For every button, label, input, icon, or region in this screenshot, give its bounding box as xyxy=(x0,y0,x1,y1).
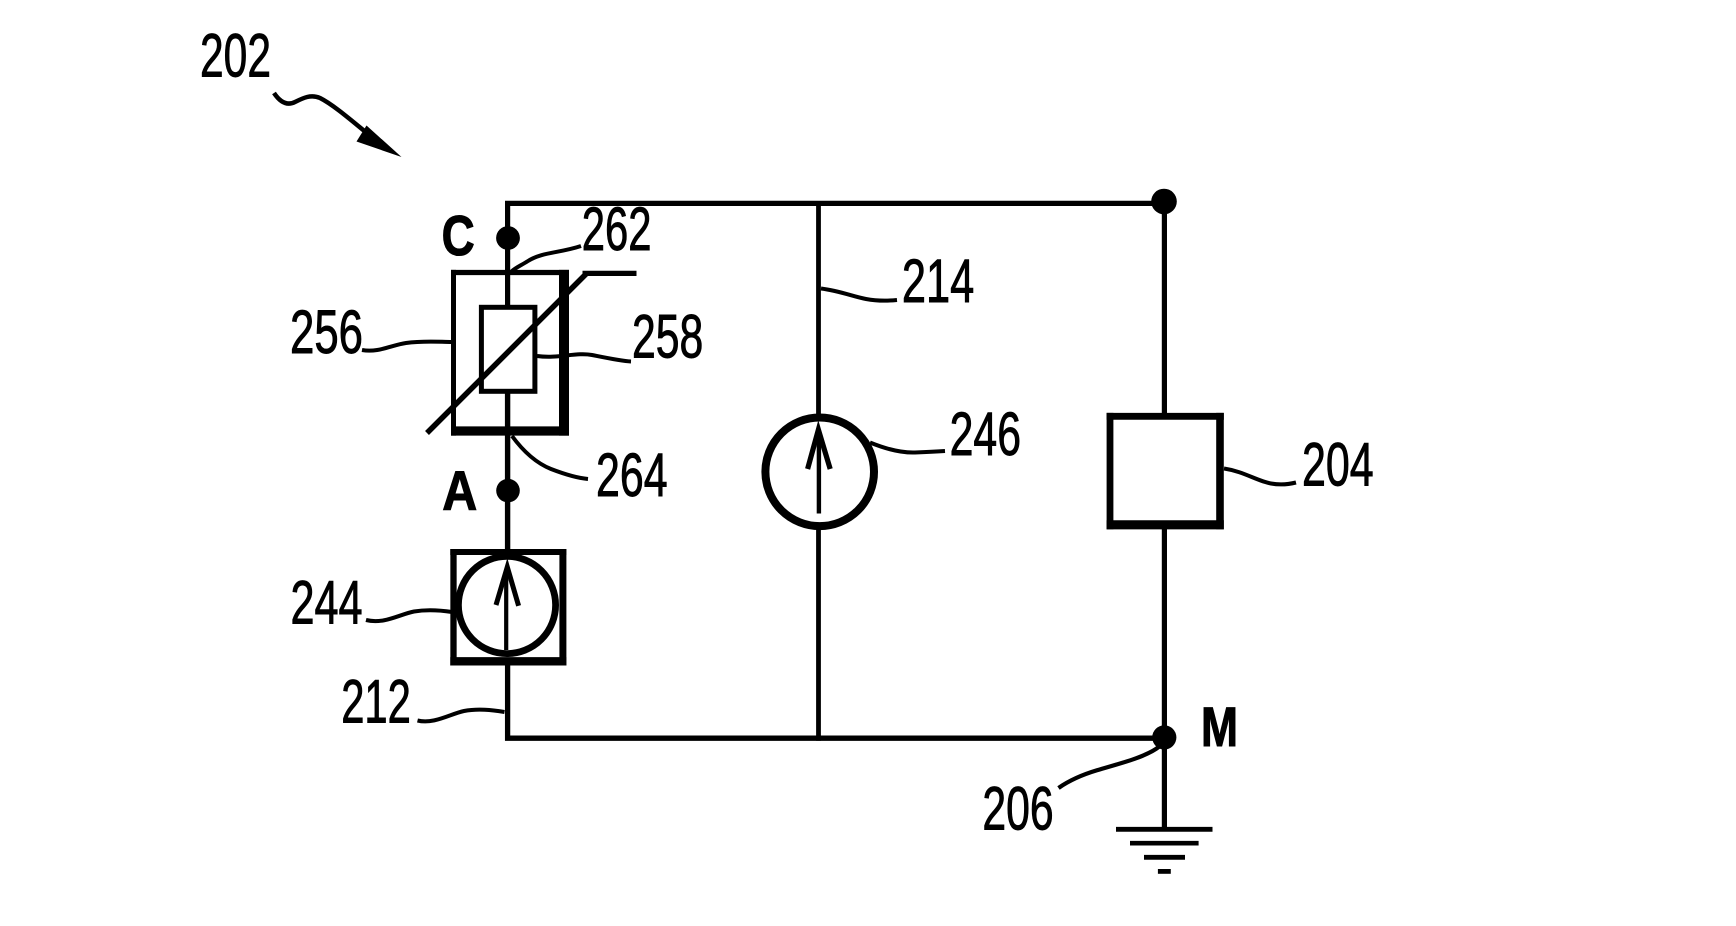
svg-text:C: C xyxy=(442,204,475,268)
arrow inside source 244 xyxy=(496,567,519,650)
svg-text:246: 246 xyxy=(950,400,1021,469)
leader arrow for 202 xyxy=(274,93,402,157)
svg-text:264: 264 xyxy=(596,441,668,510)
component box 204 xyxy=(1107,413,1224,529)
node M junction dot xyxy=(1152,725,1176,749)
svg-text:206: 206 xyxy=(982,775,1053,844)
leader line 262 xyxy=(512,246,582,272)
leader line 264 xyxy=(512,436,588,479)
svg-text:204: 204 xyxy=(1302,431,1374,500)
inner resistor box 258 xyxy=(481,307,535,391)
wire: top rail from node C branch to right branch xyxy=(508,203,1164,309)
wire: right branch lower segment to ground xyxy=(1162,528,1167,830)
svg-text:M: M xyxy=(1201,695,1238,758)
ground symbol xyxy=(1116,829,1213,871)
svg-text:202: 202 xyxy=(200,22,271,91)
wire: from inner box down through node A to source 244 xyxy=(505,389,510,555)
node dot top right xyxy=(1151,189,1177,215)
node C junction dot xyxy=(496,226,520,250)
wire: bottom rail from source 244 to node M xyxy=(508,658,1165,738)
arrow inside source 246 xyxy=(808,430,831,514)
leader line 258 xyxy=(537,354,631,361)
svg-text:A: A xyxy=(442,459,477,522)
current source circle 246 xyxy=(765,418,874,527)
wire: middle branch lower segment xyxy=(816,527,821,741)
leader line 244 xyxy=(366,610,452,621)
svg-text:262: 262 xyxy=(582,195,652,264)
wire: right branch upper segment xyxy=(1162,201,1167,414)
leader line 256 xyxy=(362,342,452,351)
svg-text:212: 212 xyxy=(341,668,411,737)
svg-text:214: 214 xyxy=(902,247,974,316)
leader line 246 xyxy=(870,443,945,453)
node A junction dot xyxy=(496,479,520,503)
leader line 204 xyxy=(1224,469,1296,485)
diagonal strike (variable symbol) 262 xyxy=(427,273,637,433)
current source circle 244 xyxy=(458,556,555,653)
current source box 244 xyxy=(450,549,566,666)
svg-text:244: 244 xyxy=(291,569,363,638)
thermistor outer box 256 xyxy=(451,270,569,436)
svg-text:256: 256 xyxy=(290,298,363,367)
svg-text:258: 258 xyxy=(632,303,703,372)
wire: middle branch upper segment xyxy=(816,202,821,417)
leader line 214 xyxy=(821,289,897,301)
leader line 206 xyxy=(1059,747,1160,788)
leader line 212 xyxy=(418,710,505,722)
